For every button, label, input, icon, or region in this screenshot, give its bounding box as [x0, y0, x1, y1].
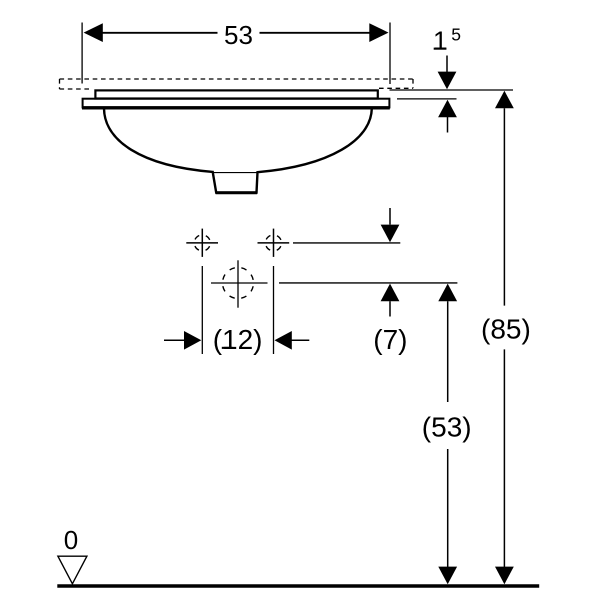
tap hole crosshair 2: [258, 229, 290, 257]
dimension 53 arrow left: [84, 23, 103, 42]
basin bowl outline: [104, 109, 372, 193]
basin drain bottom edge: [216, 191, 258, 194]
dimension 12 arrow right: [275, 331, 310, 350]
tap hole crosshair 1: [186, 229, 218, 257]
dimension 53 line left segment: [101, 32, 218, 34]
dimension 7 lower arrow: [381, 284, 400, 317]
dimension 53 vertical lower stem: [447, 449, 449, 567]
datum triangle: [58, 556, 87, 584]
dimension 53 extension line right: [389, 23, 391, 85]
drain height reference line: [279, 282, 457, 284]
basin top rim slab: [95, 90, 377, 98]
svg-text:(53): (53): [422, 412, 472, 443]
dimension 85 lower stem: [503, 349, 505, 567]
dimension 53 extension line left: [81, 23, 83, 84]
basin lower rim slab: [82, 99, 390, 108]
dimension 7 upper arrow: [381, 208, 400, 242]
svg-text:(7): (7): [373, 324, 407, 355]
svg-text:1: 1: [433, 26, 447, 56]
svg-text:(12): (12): [213, 324, 263, 355]
dimension 12 extension line right: [273, 266, 275, 354]
dimension 12 label: [213, 324, 263, 355]
dimension 1.5 lower arrow: [438, 100, 457, 133]
dimension 53 vertical upper arrow: [438, 284, 457, 402]
rim top datum line: [390, 89, 514, 91]
dimension 85 lower arrow: [495, 567, 514, 585]
countertop datum line: [397, 98, 457, 100]
dimension 85 upper arrow: [495, 91, 514, 306]
svg-text:(85): (85): [481, 314, 531, 345]
dimension 53 vertical lower arrow: [438, 567, 457, 585]
svg-text:5: 5: [451, 25, 461, 45]
svg-text:0: 0: [64, 525, 78, 555]
dimension 1.5 upper arrow: [438, 56, 457, 90]
dimension 53 line right segment: [260, 32, 372, 34]
floor line: [57, 584, 539, 588]
dimension 1.5 label: [433, 25, 461, 56]
basin drain top edge: [214, 172, 258, 174]
dimension 12 extension line left: [201, 266, 203, 354]
countertop cutout dashed outline: [60, 79, 414, 89]
dimension 53 arrow right: [369, 23, 388, 42]
dimension 12 arrow left: [164, 331, 201, 350]
tap height reference line: [293, 242, 400, 244]
drain outlet dashed circle: [211, 260, 268, 307]
svg-text:53: 53: [224, 20, 253, 50]
